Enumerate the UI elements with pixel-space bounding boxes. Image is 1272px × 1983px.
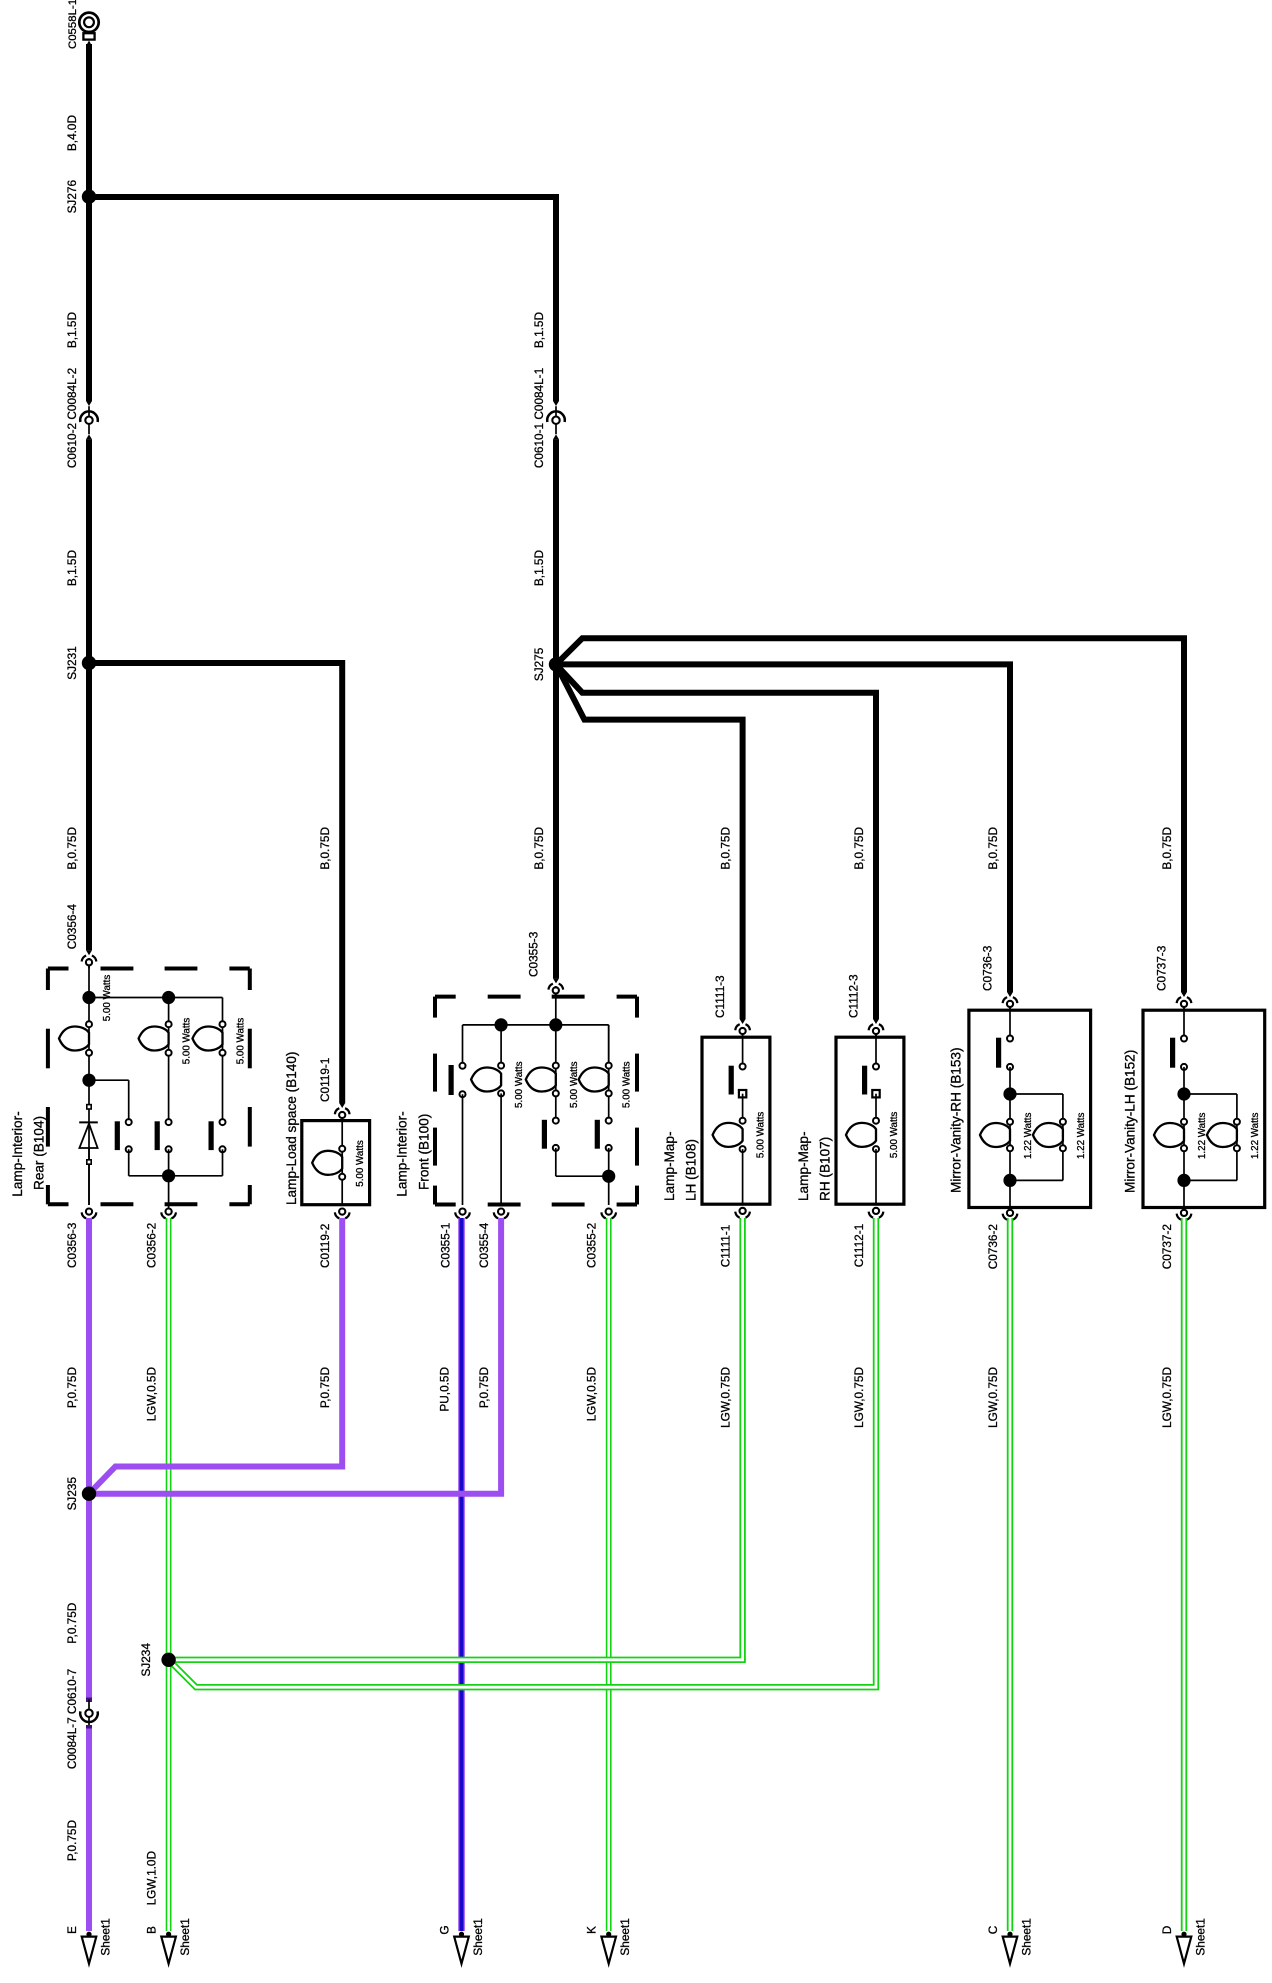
svg-text:Sheet1: Sheet1 xyxy=(99,1918,113,1955)
wire SJ275 to C0736-3 (Mirror-Vanity-RH) xyxy=(556,664,1013,997)
mirror lamp Mirror-Vanity-LH (B152) box xyxy=(1143,1010,1265,1207)
svg-text:Lamp-Load space (B140): Lamp-Load space (B140) xyxy=(284,1052,299,1205)
svg-text:C0355-2: C0355-2 xyxy=(585,1223,599,1268)
svg-text:C0558L-1: C0558L-1 xyxy=(67,0,79,49)
svg-text:E: E xyxy=(65,1926,79,1934)
svg-text:B: B xyxy=(145,1926,159,1934)
svg-text:C0737-2: C0737-2 xyxy=(1160,1224,1174,1269)
node C0355-2 xyxy=(601,1209,616,1219)
svg-text:Sheet1: Sheet1 xyxy=(471,1918,485,1955)
wire parallel branch xyxy=(1184,1094,1237,1180)
svg-text:P,0.75D: P,0.75D xyxy=(318,1367,332,1408)
svg-text:B,0.75D: B,0.75D xyxy=(719,827,733,870)
node C1112-1 xyxy=(869,1208,884,1218)
svg-text:Rear (B104): Rear (B104) xyxy=(31,1116,46,1190)
svg-text:RH (B107): RH (B107) xyxy=(818,1137,833,1201)
connector C0084L-7 C0610-7 xyxy=(80,1698,98,1730)
wire B,0.75D SJ231 to C0356-4 xyxy=(86,663,92,955)
svg-text:B,0.75D: B,0.75D xyxy=(318,827,332,870)
junction SJ235 xyxy=(82,1487,96,1501)
bulb B100 middle 5.00 Watts xyxy=(526,1025,559,1121)
svg-text:SJ231: SJ231 xyxy=(65,646,79,679)
junction B100 bottom node xyxy=(602,1170,615,1183)
switch B104 middle xyxy=(155,1119,172,1205)
svg-text:B,1.5D: B,1.5D xyxy=(65,312,79,348)
mirror lamp Mirror-Vanity-RH (B153) box xyxy=(969,1010,1091,1207)
switch B100 middle xyxy=(542,1118,609,1177)
wire B,4.0D ground to SJ276 xyxy=(86,44,92,197)
svg-text:Mirror-Vanity-RH (B153): Mirror-Vanity-RH (B153) xyxy=(948,1047,963,1193)
svg-text:B,1.5D: B,1.5D xyxy=(65,550,79,586)
wire LGW,0.75D SJ234 to C1111-1 xyxy=(169,1218,743,1660)
svg-text:Lamp-Map-: Lamp-Map- xyxy=(796,1131,811,1201)
svg-text:LGW,1.0D: LGW,1.0D xyxy=(145,1851,159,1905)
switch xyxy=(729,1035,747,1121)
off-page connector K Sheet1 xyxy=(601,1932,616,1964)
svg-text:C0119-1: C0119-1 xyxy=(318,1058,332,1102)
svg-text:B,0.75D: B,0.75D xyxy=(986,827,1000,870)
wire B104 internal bus xyxy=(89,966,223,1021)
bulb B100 left 5.00 Watts xyxy=(471,1063,504,1205)
svg-text:B,0.75D: B,0.75D xyxy=(532,827,546,870)
svg-text:PU,0.5D: PU,0.5D xyxy=(438,1367,452,1412)
junction vanity branch nodes xyxy=(1003,1087,1016,1187)
wire SJ275 to C1112-3 (Lamp-Map RH) xyxy=(556,664,879,1024)
lamp RH (B107) box xyxy=(836,1037,904,1204)
junction B104 bus nodes xyxy=(82,991,175,1004)
junction B104 bulb/diode node xyxy=(82,1074,128,1122)
switch B100 left xyxy=(449,1063,466,1205)
wire SJ276 horizontal to right branch xyxy=(89,194,559,200)
svg-text:SJ275: SJ275 xyxy=(532,647,546,681)
junction vanity branch nodes xyxy=(1177,1087,1190,1187)
svg-text:C0119-2: C0119-2 xyxy=(318,1224,332,1268)
svg-text:C1112-1: C1112-1 xyxy=(852,1224,866,1268)
junction B104 bottom node xyxy=(162,1169,175,1182)
svg-text:P,0.75D: P,0.75D xyxy=(477,1367,491,1408)
svg-text:C0736-3: C0736-3 xyxy=(981,945,995,991)
svg-text:Lamp-Interior-: Lamp-Interior- xyxy=(10,1111,25,1196)
node C0356-3 xyxy=(82,1209,97,1219)
bulb B140 5.00 Watts xyxy=(312,1121,345,1205)
node C0736-3 xyxy=(1003,997,1018,1010)
svg-text:Sheet1: Sheet1 xyxy=(1194,1918,1208,1955)
svg-text:LGW,0.5D: LGW,0.5D xyxy=(585,1367,599,1421)
wire SJ275 to C0737-3 (Mirror-Vanity-LH) xyxy=(556,638,1187,997)
node C0356-4 xyxy=(82,955,97,968)
svg-text:C0356-2: C0356-2 xyxy=(145,1223,159,1268)
svg-text:5.00 Watts: 5.00 Watts xyxy=(622,1061,633,1108)
svg-text:Front (B100): Front (B100) xyxy=(416,1114,431,1190)
junction SJ234 xyxy=(161,1653,175,1667)
svg-text:SJ234: SJ234 xyxy=(139,1643,153,1677)
lamp LH (B108) box xyxy=(702,1037,770,1204)
off-page connector G Sheet1 xyxy=(454,1932,469,1964)
svg-text:B,0.75D: B,0.75D xyxy=(1160,827,1174,870)
node C0356-2 xyxy=(161,1204,176,1218)
connector C0610-1 C0084L-1 xyxy=(547,406,565,434)
node C0355-3 xyxy=(548,984,563,997)
node C0737-3 xyxy=(1177,997,1192,1010)
svg-text:C0736-2: C0736-2 xyxy=(986,1224,1000,1269)
lamp assembly B100 Lamp-Interior-Front box xyxy=(435,997,637,1205)
bulb 1.22 Watts left xyxy=(980,1119,1013,1152)
svg-text:C: C xyxy=(986,1925,1000,1934)
svg-text:C0355-4: C0355-4 xyxy=(477,1222,491,1268)
switch B104 left xyxy=(115,1119,169,1176)
svg-text:LGW,0.75D: LGW,0.75D xyxy=(852,1367,866,1428)
wire LGW,0.5D C0356-2 to SJ234 to B xyxy=(166,1218,172,1931)
switch B104 right xyxy=(169,1119,226,1176)
svg-text:B,0.75D: B,0.75D xyxy=(65,827,79,870)
svg-text:5.00 Watts: 5.00 Watts xyxy=(569,1061,580,1108)
svg-text:K: K xyxy=(585,1926,599,1934)
junction B100 bus nodes xyxy=(495,1018,563,1031)
svg-text:Sheet1: Sheet1 xyxy=(618,1918,632,1955)
svg-text:LH (B108): LH (B108) xyxy=(684,1139,699,1201)
svg-text:B,1.5D: B,1.5D xyxy=(532,550,546,586)
bulb 5.00 Watts xyxy=(846,1118,879,1205)
junction SJ275 xyxy=(549,657,563,671)
bulb B104 middle 5.00 Watts xyxy=(139,1021,172,1122)
off-page connector B Sheet1 xyxy=(161,1932,176,1964)
svg-text:C0084L-7 C0610-7: C0084L-7 C0610-7 xyxy=(65,1669,79,1769)
node C0737-2 xyxy=(1177,1210,1192,1220)
svg-text:5.00 Watts: 5.00 Watts xyxy=(182,1018,193,1065)
node C1111-3 xyxy=(735,1024,750,1037)
svg-text:C1111-1: C1111-1 xyxy=(719,1225,733,1268)
svg-text:Lamp-Interior-: Lamp-Interior- xyxy=(394,1111,409,1196)
svg-text:C0355-1: C0355-1 xyxy=(439,1223,453,1268)
wire P,0.75D C0356-3 to SJ235 xyxy=(86,1218,92,1699)
bulb 5.00 Watts xyxy=(713,1118,746,1205)
wire P,0.75D C0610-7 to E xyxy=(86,1729,92,1932)
ground C0558L-1 xyxy=(79,13,98,46)
svg-text:5.00 Watts: 5.00 Watts xyxy=(102,975,113,1022)
lamp assembly B104 Lamp-Interior-Rear box xyxy=(48,969,250,1205)
svg-text:C0356-3: C0356-3 xyxy=(65,1222,79,1268)
node C1111-1 xyxy=(735,1208,750,1218)
bulb B104 left 5.00 Watts xyxy=(59,1021,92,1080)
switch B100 right xyxy=(595,1118,612,1205)
node C1112-3 xyxy=(869,1024,884,1037)
wire LGW,0.75D C0736-2 to C xyxy=(1007,1218,1013,1931)
wire B,1.5D C0610-2 to SJ231 xyxy=(86,434,92,663)
wire P,0.75D SJ235 branch to C0119-2 xyxy=(89,1218,342,1494)
switch xyxy=(862,1035,880,1121)
svg-text:P,0.75D: P,0.75D xyxy=(65,1367,79,1408)
svg-text:5.00 Watts: 5.00 Watts xyxy=(514,1061,525,1108)
svg-text:5.00 Watts: 5.00 Watts xyxy=(236,1018,247,1065)
node C0355-4 xyxy=(494,1209,509,1219)
svg-text:D: D xyxy=(1160,1926,1174,1935)
wire LGW,0.75D C0737-2 to D xyxy=(1181,1218,1187,1931)
svg-text:Mirror-Vanity-LH (B152): Mirror-Vanity-LH (B152) xyxy=(1122,1050,1137,1193)
switch xyxy=(996,1008,1013,1094)
switch xyxy=(1170,1008,1187,1094)
svg-text:LGW,0.75D: LGW,0.75D xyxy=(1160,1367,1174,1428)
svg-text:5.00 Watts: 5.00 Watts xyxy=(756,1112,767,1159)
svg-text:SJ235: SJ235 xyxy=(65,1477,79,1511)
node C0119-2 xyxy=(335,1209,350,1219)
svg-text:C1112-3: C1112-3 xyxy=(847,974,861,1018)
wire P,0.75D SJ235 branch to C0355-4 xyxy=(89,1218,501,1494)
wire B,1.5D C0610-1 to SJ275 xyxy=(553,434,559,664)
wire to bottom connector xyxy=(1183,1180,1185,1207)
svg-text:C1111-3: C1111-3 xyxy=(713,975,727,1018)
wire B,0.75D SJ275 to C0355-3 xyxy=(553,664,559,983)
bulb 1.22 Watts left xyxy=(1154,1119,1187,1152)
diode B104 xyxy=(79,1080,98,1205)
node C0119-1 xyxy=(335,1108,350,1120)
svg-text:Sheet1: Sheet1 xyxy=(178,1918,192,1955)
wire parallel branch xyxy=(1010,1094,1063,1180)
svg-text:B,1.5D: B,1.5D xyxy=(532,312,546,348)
junction SJ276 xyxy=(82,190,96,204)
svg-text:1.22 Watts: 1.22 Watts xyxy=(1076,1112,1087,1159)
svg-text:P,0.75D: P,0.75D xyxy=(65,1820,79,1861)
svg-text:P,0.75D: P,0.75D xyxy=(65,1603,79,1644)
off-page connector D Sheet1 xyxy=(1177,1932,1192,1964)
bulb 1.22 Watts right xyxy=(1033,1119,1066,1152)
svg-text:C0737-3: C0737-3 xyxy=(1155,945,1169,991)
svg-text:B,0.75D: B,0.75D xyxy=(852,827,866,870)
svg-text:Lamp-Map-: Lamp-Map- xyxy=(662,1131,677,1201)
off-page connector E Sheet1 xyxy=(82,1932,97,1964)
svg-text:LGW,0.75D: LGW,0.75D xyxy=(986,1367,1000,1428)
svg-text:C0355-3: C0355-3 xyxy=(526,931,540,977)
wire to bottom connector xyxy=(1009,1180,1011,1207)
svg-text:1.22 Watts: 1.22 Watts xyxy=(1250,1112,1261,1159)
svg-text:LGW,0.5D: LGW,0.5D xyxy=(145,1367,159,1421)
svg-text:G: G xyxy=(438,1925,452,1934)
connector C0610-2 C0084L-2 xyxy=(80,406,98,434)
wire SJ231 branch to Lamp-Load space xyxy=(89,663,345,1108)
bulb B100 right 5.00 Watts xyxy=(579,1025,612,1121)
wire LGW,0.75D SJ234 to C1112-1 xyxy=(169,1218,876,1687)
wire B,1.5D SJ276 to C0610-2 xyxy=(86,197,92,406)
lamp B140 Lamp-Load space box xyxy=(302,1121,370,1205)
svg-text:Sheet1: Sheet1 xyxy=(1020,1918,1034,1955)
wire B100 internal bus xyxy=(463,994,609,1066)
bulb B104 right 5.00 Watts xyxy=(193,1021,226,1122)
svg-text:LGW,0.75D: LGW,0.75D xyxy=(719,1367,733,1428)
svg-text:C0610-1 C0084L-1: C0610-1 C0084L-1 xyxy=(532,368,546,468)
off-page connector C Sheet1 xyxy=(1003,1932,1018,1964)
wire LGW,0.5D C0355-2 to K xyxy=(606,1218,612,1931)
junction SJ231 xyxy=(82,656,96,670)
svg-text:5.00 Watts: 5.00 Watts xyxy=(355,1140,366,1187)
svg-text:C0356-4: C0356-4 xyxy=(65,904,79,950)
svg-text:SJ276: SJ276 xyxy=(65,180,79,214)
svg-text:5.00 Watts: 5.00 Watts xyxy=(889,1112,900,1159)
node C0355-1 xyxy=(455,1209,470,1219)
svg-text:C0610-2 C0084L-2: C0610-2 C0084L-2 xyxy=(65,368,79,468)
wire SJ275 to C1111-3 (Lamp-Map LH) xyxy=(556,664,746,1024)
node C0736-2 xyxy=(1003,1210,1018,1220)
svg-text:B,4.0D: B,4.0D xyxy=(65,115,79,151)
wire PU,0.5D C0355-1 to G xyxy=(458,1218,465,1931)
bulb 1.22 Watts right xyxy=(1207,1119,1240,1152)
wire B,1.5D SJ276 to C0610-1 xyxy=(553,197,559,406)
